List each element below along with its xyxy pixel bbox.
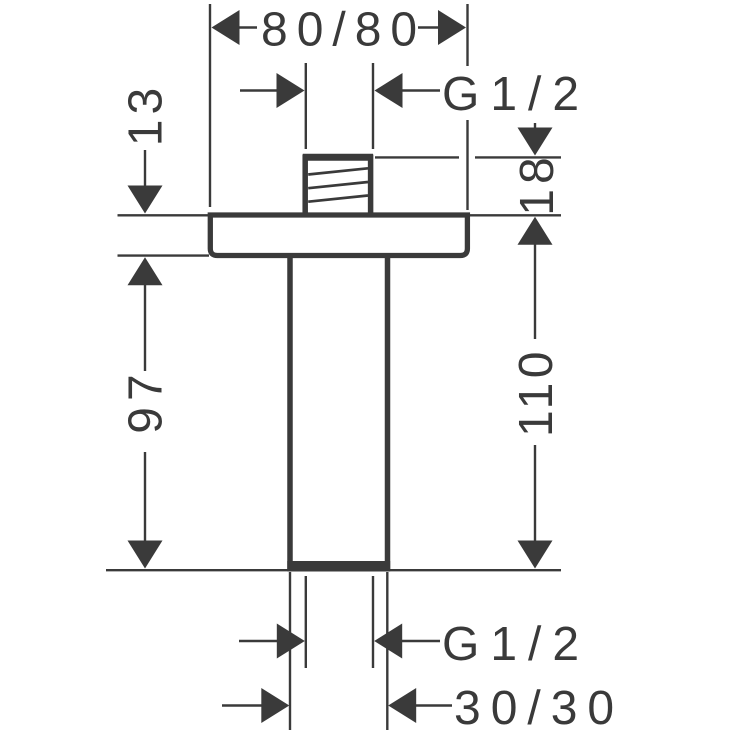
- ceiling line left segment: [118, 214, 210, 216]
- dim 13 down arrowhead: [128, 186, 163, 214]
- dim 97 up arrowhead: [128, 257, 163, 285]
- dim 80/80 left tail line: [238, 26, 257, 28]
- dim 18 tail line above arrow: [534, 123, 536, 130]
- dim 110 up arrowhead: [518, 217, 553, 245]
- bottom 30/30 left leader line: [222, 704, 262, 706]
- dim G1/2 top left arrowhead: [277, 73, 305, 108]
- bottom G1/2 left extension line: [305, 576, 307, 668]
- svg-text:80/80: 80/80: [261, 4, 426, 57]
- svg-text:13: 13: [120, 83, 173, 146]
- dim 80/80 right arrowhead: [438, 10, 466, 45]
- bottom 30/30 right leader line: [416, 704, 452, 706]
- dim G1/2 top left leader line: [240, 89, 278, 91]
- svg-text:30/30: 30/30: [454, 682, 624, 735]
- dim 97 line lower segment: [144, 452, 146, 542]
- dim 97 line upper segment: [144, 284, 146, 371]
- dim 110 down arrowhead: [518, 541, 553, 569]
- dim 80/80 right extension line lower segment: [466, 120, 468, 210]
- bottom reference line: [106, 569, 561, 571]
- svg-text:G1/2: G1/2: [442, 618, 590, 671]
- thread hatch line 3: [308, 196, 368, 202]
- svg-text:97: 97: [120, 368, 173, 433]
- thread hatch line 2: [308, 182, 368, 188]
- dim 80/80 left arrowhead: [212, 10, 240, 45]
- dim G1/2 top right arrowhead: [375, 73, 403, 108]
- svg-text:G1/2: G1/2: [442, 68, 590, 121]
- bottom G1/2 left leader line: [239, 640, 278, 642]
- bottom 30/30 left arrowhead: [261, 688, 289, 723]
- dim 18 down arrowhead: [518, 128, 553, 156]
- dim G1/2 top right extension line: [372, 63, 374, 149]
- dim 80/80 right extension line upper segment: [466, 4, 468, 66]
- svg-text:110: 110: [510, 347, 563, 437]
- svg-text:18: 18: [511, 152, 564, 215]
- flange bottom extension line: [118, 254, 210, 256]
- dim G1/2 top left extension line: [305, 63, 307, 149]
- bottom 30/30 right extension line: [386, 572, 388, 730]
- dim 18 top reference line: [375, 156, 459, 158]
- dim 13 tail line: [144, 150, 146, 186]
- flange outline: [210, 215, 467, 256]
- bottom 30/30 right arrowhead: [388, 688, 416, 723]
- ceiling line right segment: [468, 214, 561, 216]
- bottom G1/2 right leader line: [402, 640, 440, 642]
- dim 110 line lower segment: [534, 445, 536, 542]
- bottom G1/2 right arrowhead: [374, 624, 402, 659]
- dim 18 top reference line right segment: [475, 156, 561, 158]
- dim G1/2 top right leader line: [402, 89, 440, 91]
- pipe right edge: [385, 253, 391, 569]
- bottom G1/2 left arrowhead: [277, 624, 305, 659]
- pipe left edge: [287, 253, 293, 569]
- bottom 30/30 left extension line: [289, 572, 291, 730]
- pipe bottom end edge: [287, 561, 390, 572]
- dim 80/80 left extension line: [209, 4, 211, 207]
- thread hatch line 1: [308, 168, 368, 174]
- bottom G1/2 right extension line: [372, 576, 374, 668]
- threaded stub outline: [305, 157, 370, 214]
- dim 110 line upper segment: [534, 243, 536, 339]
- dim 97 down arrowhead: [128, 541, 163, 569]
- threaded stub thick top edge: [303, 154, 373, 161]
- dim 80/80 right tail line: [418, 26, 440, 28]
